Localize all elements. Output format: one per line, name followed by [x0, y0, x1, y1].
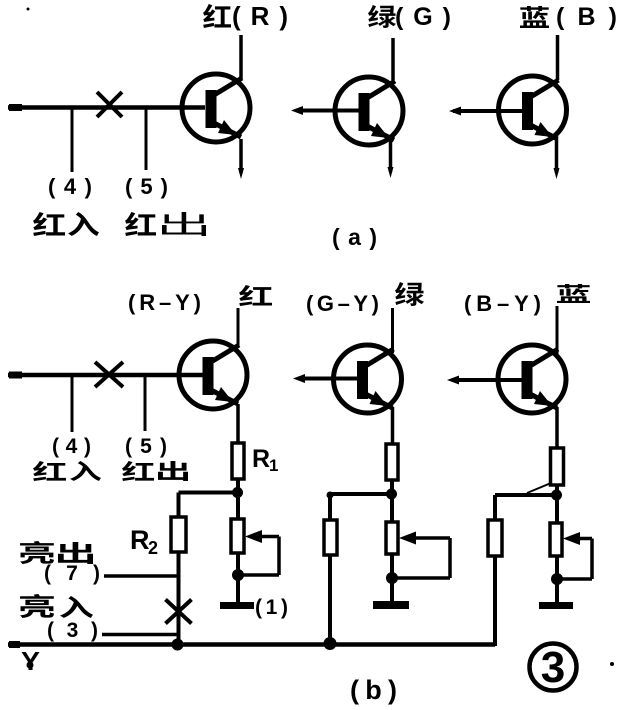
wire P2 to ground — [390, 578, 394, 602]
resistor R1 — [232, 443, 244, 479]
wire below R2 to Y bus — [177, 552, 181, 646]
wire emitter lead V4 — [236, 404, 240, 444]
wire base lead V3 with arrow — [453, 109, 524, 113]
svg-text:(1): (1) — [255, 596, 288, 619]
svg-text:(5): (5) — [125, 435, 167, 458]
transistor V1 red (R) — [182, 74, 250, 142]
wire collector lead V4 — [237, 308, 240, 347]
wire node to R2 branch — [179, 491, 239, 495]
svg-text:R: R — [252, 445, 270, 473]
label 蓝(B) for transistor V3 — [520, 6, 549, 28]
wire brightness-in (3) — [102, 633, 179, 637]
label 红出 section b — [122, 461, 154, 481]
svg-text:(b): (b) — [350, 675, 397, 705]
wire node to R6 branch — [495, 493, 557, 497]
scan artifact line near RE3 — [527, 483, 551, 493]
node junction below RE2 — [386, 489, 397, 500]
wire collector lead V2 — [391, 38, 395, 80]
svg-text:Y: Y — [21, 646, 40, 676]
figure number circled 3 — [530, 644, 577, 691]
label 绿 above V5 — [395, 282, 424, 306]
wire base lead V5 with arrow — [298, 377, 360, 381]
label 红出 section a — [125, 212, 156, 236]
transistor V3 blue (B) — [499, 76, 567, 144]
break mark X on input wire section a — [97, 92, 122, 117]
wire collector lead V1 — [239, 35, 243, 79]
wire input bus section b — [8, 373, 203, 378]
wire RE3 to node — [555, 485, 559, 495]
resistor RE2 emitter of V5 — [386, 444, 398, 480]
node junction below P2 — [386, 572, 398, 584]
svg-text:(R): (R) — [232, 1, 288, 31]
wire input bus section a — [8, 105, 205, 110]
transistor V5 (G-Y) — [334, 345, 402, 413]
wire below R6 to Y bus — [493, 556, 497, 646]
wire wiper loop P2 — [448, 538, 452, 578]
node junction below P3 — [551, 573, 563, 585]
wire pot P3 bottom lead — [555, 556, 559, 580]
wire pot P1 top lead — [236, 493, 240, 521]
node Y bus junction left — [172, 639, 184, 651]
break mark X on brightness-in wire — [166, 600, 192, 624]
node junction below P1 — [232, 569, 244, 581]
wire emitter lead V1 — [239, 139, 243, 173]
wire pot P3 top lead — [555, 495, 559, 524]
node junction below R1 — [232, 487, 243, 498]
wire collector lead V6 — [556, 306, 559, 356]
label 红入 section a — [33, 212, 65, 236]
wiper arrow P2 — [411, 536, 450, 540]
wire pot P2 bottom lead — [390, 554, 394, 579]
transistor V4 (R-Y) — [179, 341, 247, 409]
wire stub (4) red-in section b — [71, 375, 74, 432]
label 红(R) for transistor V1 — [203, 4, 231, 28]
svg-text:(5): (5) — [125, 174, 168, 199]
svg-text:(a): (a) — [332, 224, 377, 250]
transistor V6 (B-Y) — [498, 345, 566, 413]
resistor R2 — [171, 517, 186, 552]
wire emitter lead V6 — [555, 407, 559, 448]
wire stub (5) red-out section a — [145, 108, 148, 171]
ground G1 — [220, 602, 254, 609]
wire wiper loop P3 — [590, 539, 594, 580]
scan speck top left — [27, 8, 30, 11]
wire node to R4 branch — [330, 492, 392, 496]
ground G3 — [539, 602, 573, 609]
label 红 above V4 — [239, 285, 272, 306]
wiper arrow P3 — [575, 537, 592, 541]
wire emitter lead V3 — [555, 138, 559, 173]
svg-text:(4): (4) — [48, 174, 92, 199]
potentiometer P3 — [550, 523, 562, 556]
svg-text:3: 3 — [541, 643, 565, 692]
wire collector lead V3 — [556, 35, 560, 80]
wire base lead V2 with arrow — [296, 109, 359, 113]
label 亮入 — [20, 594, 54, 618]
wire base lead V6 with arrow — [452, 378, 524, 382]
resistor R6 — [488, 520, 502, 556]
label 蓝 above V6 — [557, 284, 590, 303]
label 红入 section b — [33, 461, 66, 481]
wire emitter lead V2 — [389, 139, 393, 172]
ground G2 — [373, 601, 409, 609]
node Y bus junction middle — [324, 637, 337, 650]
wire RE2 to node — [390, 480, 394, 495]
wire brightness-out (7) — [104, 574, 179, 578]
wire pot P2 top lead — [390, 494, 394, 523]
wire pot P1 bottom lead — [236, 553, 240, 576]
label 亮出 — [20, 541, 54, 564]
svg-text:(4): (4) — [52, 435, 91, 458]
wiper arrow P1 — [257, 535, 279, 539]
svg-text:(G–Y): (G–Y) — [306, 291, 379, 316]
label 绿(G) for transistor V2 — [368, 5, 396, 28]
svg-text:2: 2 — [148, 538, 158, 558]
wire Y bus — [8, 642, 495, 647]
scan speck right — [610, 662, 614, 666]
transistor V2 green (G) — [335, 77, 403, 145]
wire wiper loop P1 — [277, 537, 281, 576]
wire collector lead V5 — [391, 308, 394, 353]
resistor RE3 emitter of V6 — [551, 448, 564, 485]
wire below R4 to Y bus — [328, 555, 332, 646]
wire R1 to node — [236, 479, 240, 493]
node junction below RE3 — [551, 490, 562, 501]
wire P1 to ground — [236, 575, 240, 603]
break mark X on input wire section b — [95, 362, 123, 387]
potentiometer P1 — [231, 519, 244, 553]
potentiometer P2 — [386, 522, 398, 554]
resistor R4 — [324, 520, 337, 555]
svg-text:R: R — [130, 525, 150, 555]
wire stub (5) red-out section b — [144, 375, 147, 431]
wire emitter lead V5 — [391, 407, 395, 445]
wire P3 to ground — [555, 579, 559, 603]
svg-text:1: 1 — [269, 456, 278, 475]
wire stub (4) red-in section a — [71, 108, 74, 173]
